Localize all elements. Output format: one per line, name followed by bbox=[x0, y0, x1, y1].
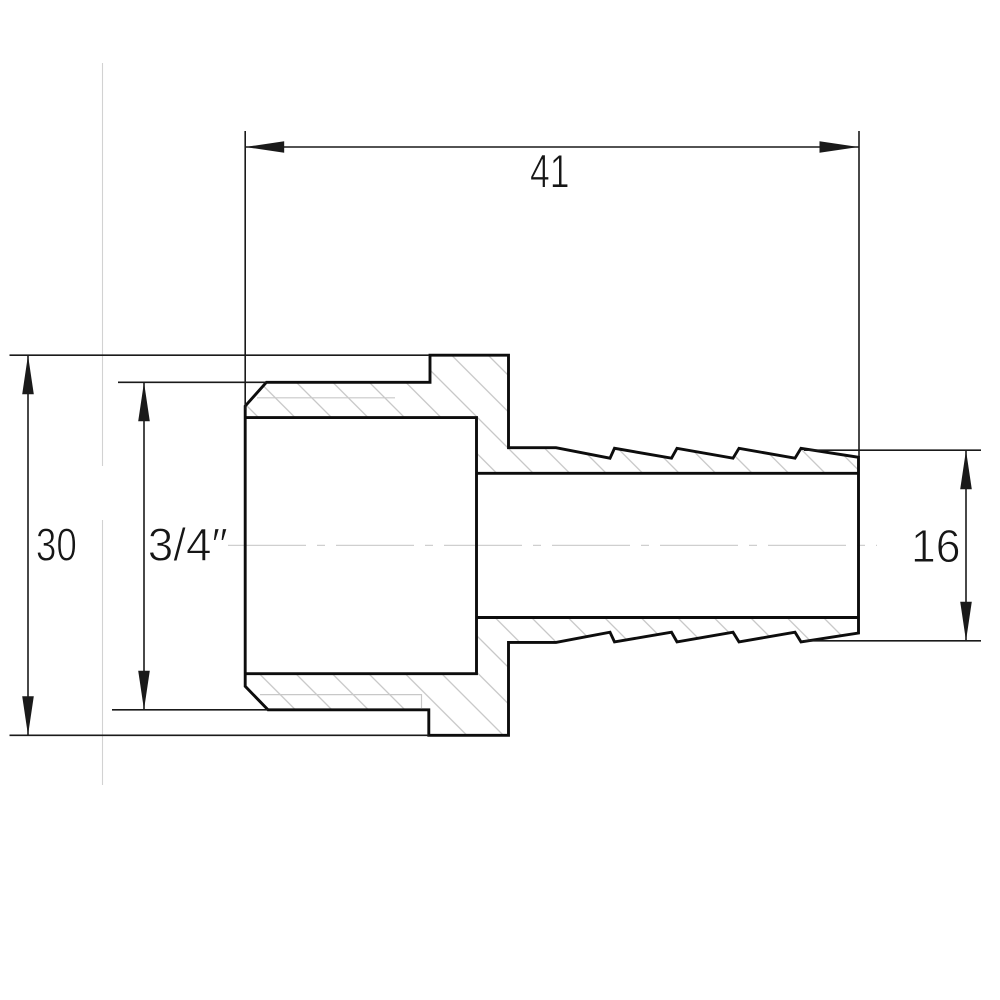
dimension 16 extension top bbox=[804, 449, 981, 451]
body section (hatched material with bores) bbox=[245, 355, 858, 735]
dimension 30 line bbox=[27, 355, 29, 735]
thread line top (thin gray) bbox=[257, 397, 395, 399]
arrow 30 bottom bbox=[22, 696, 34, 735]
dimension 16 extension bottom bbox=[804, 640, 981, 642]
arrow 41 left bbox=[245, 141, 284, 153]
dimension 3/4 extension top bbox=[118, 381, 266, 383]
dimension 41 line bbox=[245, 146, 858, 148]
dimension 30 extension top bbox=[10, 354, 429, 356]
arrow 3/4 top bbox=[138, 382, 150, 421]
thread line bottom (thin gray) bbox=[260, 695, 422, 709]
dimension 3/4 extension bottom bbox=[112, 709, 268, 711]
arrow 16 top bbox=[960, 450, 972, 489]
arrow 41 right bbox=[820, 141, 859, 153]
construction line lower segment bbox=[102, 520, 104, 785]
svg-text:3/4″: 3/4″ bbox=[148, 519, 228, 571]
centerline (dash-dot) bbox=[228, 544, 877, 546]
svg-text:30: 30 bbox=[36, 519, 77, 571]
svg-text:16: 16 bbox=[911, 520, 961, 572]
arrow 3/4 bottom bbox=[138, 671, 150, 710]
dimension 41 extension right bbox=[858, 131, 860, 456]
arrow 30 top bbox=[22, 355, 34, 394]
dimension 41 extension left bbox=[244, 131, 246, 410]
svg-text:41: 41 bbox=[530, 145, 570, 198]
dimension 3/4 line bbox=[143, 382, 145, 710]
construction line (vertical light gray) bbox=[102, 63, 104, 466]
arrow 16 bottom bbox=[960, 602, 972, 641]
dimension 30 extension bottom bbox=[10, 734, 429, 736]
dimension 16 line bbox=[965, 450, 967, 641]
